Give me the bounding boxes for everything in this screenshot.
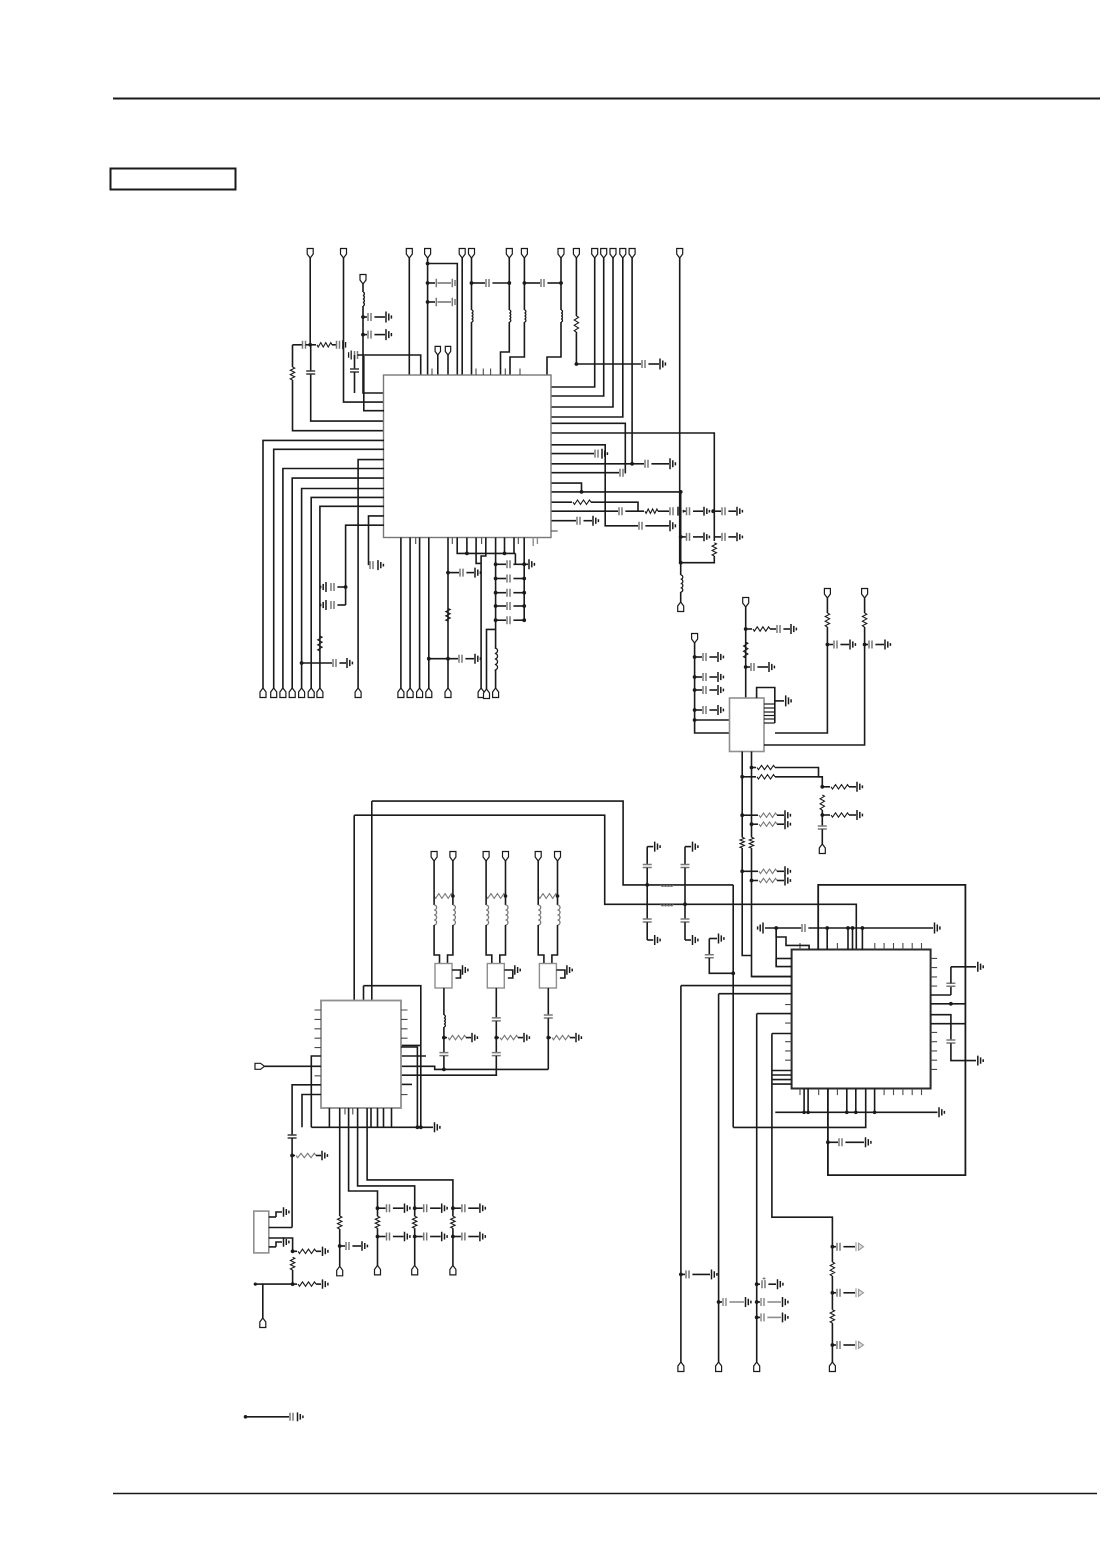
junction (693, 708, 697, 712)
wire (537, 861, 539, 896)
wire (776, 928, 791, 967)
wire (370, 1108, 372, 1127)
wire term to U2 (745, 607, 747, 698)
wire U1 pin to connector (311, 497, 384, 688)
ground (321, 582, 326, 592)
connector P25 (317, 688, 323, 698)
wire (828, 1141, 838, 1143)
resistor R30 (338, 1216, 342, 1229)
resistor R5 (413, 1216, 417, 1228)
resistor R15 (759, 813, 777, 817)
wire (496, 563, 506, 565)
wire (340, 1245, 345, 1247)
ground (386, 329, 391, 340)
junction (446, 571, 450, 575)
wire (369, 516, 385, 565)
wire (695, 719, 730, 721)
wire (495, 1056, 497, 1076)
pin ticks U1 right (551, 530, 558, 532)
connector P37 (412, 1265, 418, 1275)
ground (323, 1279, 328, 1288)
ground (791, 624, 796, 634)
capacitor C52 (346, 1242, 349, 1250)
capacitor C48 (492, 1018, 501, 1021)
wire (547, 282, 561, 284)
wire (551, 501, 572, 503)
wire (714, 536, 721, 538)
wire feedback (551, 423, 625, 472)
wire (393, 1207, 404, 1209)
junction (244, 1415, 248, 1419)
pin ticks U3 bottom (345, 1108, 353, 1115)
wire (752, 823, 759, 825)
connector P37 (819, 844, 825, 854)
wire (646, 847, 648, 865)
wire (293, 1250, 297, 1252)
capacitor C67 (837, 1289, 840, 1297)
ground (576, 1033, 581, 1042)
capacitor C43 (818, 826, 827, 829)
ground (866, 1137, 871, 1147)
capacitor C5 (507, 616, 510, 624)
ic U1 (384, 375, 552, 538)
wire (433, 896, 435, 905)
wire (575, 332, 577, 364)
junction (826, 643, 830, 647)
wire row (772, 1070, 792, 1072)
pin ticks U1 top (432, 369, 520, 376)
wire (471, 258, 473, 310)
junction (717, 1300, 721, 1304)
connector P4 (425, 249, 431, 259)
ground (856, 1242, 864, 1251)
wire (646, 922, 648, 940)
connector CN1 (254, 1211, 269, 1253)
ground (785, 819, 790, 829)
capacitor C1 (303, 341, 306, 349)
capacitor C46 (705, 955, 714, 958)
wire term to U1 pin (551, 258, 613, 407)
ground (529, 559, 534, 569)
wire (709, 676, 717, 678)
ground (347, 658, 352, 668)
resistor R21 (831, 785, 849, 789)
junction (750, 879, 754, 883)
capacitor C7 (350, 369, 359, 372)
ground (786, 695, 791, 706)
wire U3 out (358, 1108, 415, 1216)
wire (292, 345, 294, 367)
wire C3 to U1 (311, 375, 384, 422)
wire (551, 491, 681, 493)
junction (361, 333, 365, 337)
wire U1 pin to connector (419, 538, 421, 689)
wire (364, 986, 421, 1128)
wire (443, 988, 445, 1015)
wire (337, 586, 345, 588)
ground (718, 685, 723, 695)
wire (513, 619, 524, 621)
wire (292, 1155, 295, 1157)
junction (254, 1283, 257, 1286)
junction (831, 1343, 835, 1347)
inductor L4 (524, 310, 526, 322)
junction (442, 1036, 446, 1040)
wire (513, 605, 524, 607)
connector P24 (308, 688, 314, 698)
junction (361, 315, 365, 319)
wire (513, 538, 515, 554)
ground (670, 458, 675, 469)
wire long out1 (680, 986, 682, 1362)
wire (951, 966, 976, 968)
capacitor C27 (333, 659, 336, 667)
wire (742, 870, 758, 872)
junction (504, 894, 508, 898)
capacitor C18 (462, 1204, 465, 1212)
junction (556, 894, 560, 898)
wire (487, 629, 496, 689)
wire (362, 284, 364, 292)
capacitor C12 (681, 865, 690, 868)
wire (429, 658, 458, 660)
connector P34 (535, 852, 541, 862)
wire (855, 1089, 857, 1113)
wire (831, 1293, 833, 1310)
wire to U1 top (358, 355, 421, 375)
wire (415, 1207, 423, 1209)
resistor R1 (317, 343, 332, 347)
pin ticks U1 left (0, 0, 1, 1)
wire (414, 1228, 416, 1265)
wire (393, 1236, 404, 1238)
wire U1 pin to connector (409, 538, 411, 689)
ground (322, 1151, 327, 1160)
connector P38 (450, 1265, 456, 1275)
inductor L1 (363, 292, 364, 306)
wire (684, 922, 686, 940)
wire CN1 pin3 (269, 1238, 293, 1251)
ground (785, 876, 790, 886)
junction (442, 1068, 446, 1072)
connector P28 (417, 688, 423, 698)
wire (368, 564, 370, 566)
wire (504, 538, 506, 554)
wire bus A drop to U3 (371, 801, 373, 1000)
wire U1 pin net (447, 538, 449, 689)
wire stub (401, 1055, 426, 1057)
wire row (681, 985, 792, 987)
wire (680, 563, 682, 575)
wire (453, 1207, 461, 1209)
wire (777, 880, 784, 882)
junction (731, 971, 735, 975)
wire (505, 861, 507, 896)
junction (465, 552, 469, 556)
wire (339, 662, 346, 664)
wire (647, 846, 653, 848)
wire (775, 700, 784, 702)
capacitor C41 (834, 641, 837, 649)
wire (345, 587, 347, 605)
capacitor C16 (639, 522, 642, 530)
ground G9 (405, 1232, 410, 1241)
wire (826, 928, 828, 950)
junction (851, 926, 855, 930)
ground (719, 934, 724, 944)
wire U2 pin (764, 707, 775, 709)
wire (931, 1015, 951, 1040)
wire to U4 (752, 848, 792, 977)
resistor R17 (740, 837, 744, 848)
resistor R20 (759, 878, 777, 882)
wire (840, 644, 849, 646)
wire (269, 1216, 276, 1218)
ground G5 (463, 965, 468, 974)
pin ticks U3 right (401, 1010, 408, 1095)
junction (522, 591, 526, 595)
junction (645, 883, 649, 887)
junction (575, 362, 579, 366)
pin ticks U4 top (800, 943, 922, 950)
wire (551, 483, 582, 492)
capacitor C7 (703, 673, 706, 681)
wire (378, 1207, 386, 1209)
capacitor C17 (424, 1233, 427, 1241)
wire (648, 363, 659, 365)
junction (755, 1300, 759, 1304)
wire (713, 510, 721, 512)
wire (548, 1037, 551, 1039)
wire (719, 1301, 722, 1303)
wire cap ladder net (495, 538, 497, 630)
junction (820, 785, 824, 789)
ground (718, 705, 723, 715)
connector P30 (431, 852, 437, 862)
junction (507, 281, 511, 285)
junction (494, 577, 498, 581)
wire (831, 1345, 833, 1362)
wire (849, 786, 856, 788)
wire to U1 (547, 322, 561, 375)
wire (374, 316, 385, 318)
capacitor C28 (460, 569, 463, 577)
connector P36 (862, 589, 868, 599)
ground (593, 516, 598, 526)
junction (308, 343, 312, 347)
ground G12 (480, 1204, 485, 1213)
wire U3 out1 (339, 1108, 341, 1216)
ground (704, 507, 709, 516)
resistor R37 (290, 1257, 294, 1270)
wire (496, 605, 506, 607)
wire bus B drop to U3 (353, 815, 355, 1000)
connector P8 (521, 249, 527, 259)
resistor R10 (744, 642, 748, 658)
filter FL1 (435, 964, 452, 989)
wire (494, 670, 497, 688)
wire (485, 861, 487, 896)
pin ticks U4 right (931, 958, 938, 1069)
wire long out4 (772, 1034, 833, 1247)
connector P35 (824, 589, 830, 599)
wire (728, 510, 736, 512)
connector P6 (469, 249, 475, 259)
wire (332, 344, 336, 346)
capacitor C4 (507, 602, 510, 610)
junction (494, 604, 498, 608)
capacitor C50 (544, 1015, 553, 1018)
wire (496, 1037, 499, 1039)
connector P49 (678, 1362, 684, 1372)
title box (111, 169, 236, 190)
wire (495, 988, 497, 1018)
wire (518, 1037, 523, 1039)
wire (681, 1273, 685, 1275)
junction (831, 1291, 835, 1295)
wire term to U1 pin (551, 258, 604, 396)
wire (695, 656, 702, 658)
wire (576, 363, 641, 365)
junction (744, 665, 748, 669)
page bottom rule (113, 1493, 1097, 1495)
resistor R11 (825, 613, 829, 627)
ground (362, 1241, 367, 1250)
resistor R12 (862, 613, 866, 627)
wire (776, 958, 791, 960)
junction (376, 1206, 380, 1210)
junction (825, 926, 829, 930)
inductor L14 (444, 1015, 446, 1027)
filter FL3 (539, 964, 556, 989)
wire (832, 1246, 836, 1248)
junction (494, 1036, 498, 1040)
wire (685, 846, 691, 848)
ground (349, 351, 352, 360)
wire (302, 1095, 321, 1128)
wire U2 pin (764, 718, 775, 720)
capacitor C18 (670, 507, 673, 515)
junction (693, 675, 697, 679)
capacitor C9 (703, 706, 706, 714)
wire (453, 1236, 461, 1238)
wire (452, 896, 454, 905)
wire (310, 345, 312, 371)
capacitor C23 (722, 533, 725, 541)
ground (678, 507, 683, 516)
capacitor C6 (703, 653, 706, 661)
wire (931, 1023, 966, 1025)
connector P19 (271, 688, 277, 698)
junction (845, 1111, 849, 1115)
capacitor C36 (751, 663, 754, 671)
ground (284, 1207, 289, 1216)
wire (709, 938, 717, 940)
wire VDD to U1 (408, 258, 410, 375)
wire (316, 1155, 321, 1157)
wire (263, 1284, 293, 1318)
pin ticks U1 bottom (416, 538, 519, 545)
junction (861, 926, 865, 930)
wire (709, 656, 717, 658)
capacitor C61 (686, 1270, 689, 1278)
wire busA to U4 (733, 1089, 866, 1128)
junction (744, 627, 748, 631)
wire to U1 pin (363, 306, 384, 393)
junction (854, 1111, 858, 1115)
resistor R4 (573, 500, 591, 504)
wire (504, 970, 513, 978)
wire U1 pin to connector (283, 469, 384, 689)
wire (430, 1207, 441, 1209)
ground (885, 640, 890, 650)
wire (875, 644, 884, 646)
junction (427, 657, 431, 661)
wire long out3 (756, 1014, 758, 1362)
ground G1 (655, 842, 660, 852)
ic U2 (730, 698, 765, 752)
wire (246, 1416, 290, 1418)
ground G7 (567, 965, 572, 974)
wire (808, 927, 933, 929)
wire U3 out (367, 1108, 453, 1216)
resistor R2 (486, 894, 505, 899)
connector P3 (406, 249, 412, 259)
wire (951, 1043, 976, 1060)
resistor R38 (298, 1282, 316, 1286)
junction (711, 509, 715, 513)
wire (383, 1108, 385, 1127)
wire (443, 1038, 445, 1053)
wire U2 out B (751, 752, 753, 838)
wire (746, 666, 750, 668)
capacitor C66 (837, 1243, 840, 1251)
capacitor C19 (462, 1233, 465, 1241)
junction (679, 535, 683, 539)
junction (693, 655, 697, 659)
wire term to U1 pin (551, 258, 623, 417)
wire (625, 510, 644, 512)
wire term to U1 pin (551, 258, 632, 464)
wire (485, 896, 487, 905)
wire U2 pin (764, 711, 775, 713)
ground (737, 533, 742, 542)
wire (783, 628, 790, 630)
capacitor C12 (642, 360, 645, 368)
capacitor C51 (288, 1135, 297, 1138)
pin stub (533, 538, 537, 547)
junction (291, 1249, 295, 1253)
wire (827, 644, 833, 646)
wire (767, 1301, 781, 1303)
junction (522, 562, 526, 566)
ground (850, 640, 855, 650)
connector P9 (558, 249, 564, 259)
wire (768, 1283, 776, 1285)
wire (452, 1228, 454, 1265)
connector P26 (398, 688, 404, 698)
resistor R9 (753, 627, 770, 631)
capacitor C68 (837, 1341, 840, 1349)
connector P7 (506, 249, 512, 259)
wire (646, 868, 648, 919)
junction (740, 813, 744, 817)
wire busA drop (732, 885, 734, 1128)
connector P32 (493, 688, 499, 698)
ground (856, 1288, 864, 1297)
junction (451, 1206, 455, 1210)
wire (496, 619, 506, 621)
